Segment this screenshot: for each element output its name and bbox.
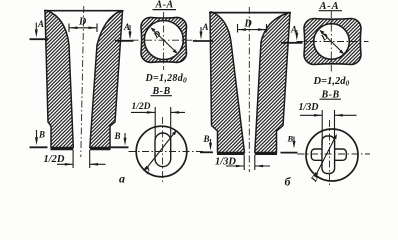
B-B cross slot: horizontal bar <box>311 149 346 160</box>
section mark A (left side of right die): arrow <box>200 27 202 34</box>
B-B diagonal diameter dimension (right) <box>316 136 337 176</box>
A-A horizontal center line (right) <box>297 41 369 43</box>
A-A vertical center line <box>163 12 165 70</box>
svg-text:a: a <box>119 172 125 186</box>
section mark B (right side): tick <box>281 152 298 154</box>
section label A-A underline <box>153 9 177 11</box>
section mark B (right side of right die): arrow <box>293 137 295 143</box>
svg-text:1/2D: 1/2D <box>132 102 151 112</box>
section label B-B underline <box>320 98 342 100</box>
svg-text:B: B <box>114 131 121 141</box>
left die: vertical center line (dash-dot) <box>81 6 84 157</box>
dimension 1/2D: dimension line with inward arrows <box>57 163 106 165</box>
svg-text:б: б <box>285 175 292 189</box>
B-B vertical center line <box>162 117 164 183</box>
dimension D (left die): extension lines <box>69 24 97 33</box>
A-A bore circle (right) <box>314 24 350 60</box>
section mark B (left side of left die): arrow <box>36 130 38 139</box>
section label B-B underline <box>151 95 173 97</box>
svg-text:B: B <box>38 130 45 140</box>
B-B cross slot: vertical bar <box>322 136 335 174</box>
section mark A (right side): tick <box>115 40 134 42</box>
A-A horizontal center line <box>132 39 198 41</box>
A-A bore circle <box>144 21 183 60</box>
svg-text:B: B <box>203 134 210 144</box>
dimension 1/3D (above right B-B): extension lines <box>322 110 334 145</box>
svg-text:1/2D: 1/2D <box>44 154 65 165</box>
section mark A (right side of right die): arrow <box>296 30 298 35</box>
svg-text:D: D <box>78 17 86 28</box>
svg-text:1/3D: 1/3D <box>299 102 319 113</box>
right die: bottom face thick lines <box>217 153 277 155</box>
svg-text:A: A <box>37 19 44 29</box>
svg-text:A: A <box>123 22 130 32</box>
svg-text:A: A <box>290 25 297 35</box>
section mark B (left side): tick <box>200 151 213 153</box>
dimension D (left die): dimension line with outward arrows <box>69 27 97 29</box>
section mark B (left side of right die): arrow <box>210 139 212 145</box>
dimension 1/2D (above B-B): dimension line, inward arrows from outside <box>131 111 185 113</box>
svg-text:A-A: A-A <box>155 0 174 11</box>
B-B outer circle (right) <box>306 129 358 181</box>
section mark A (left side of left die): arrow <box>35 23 37 32</box>
A-A diagonal diameter dimension (right) <box>321 31 344 53</box>
right die: left wall cross-section (hatched) <box>210 12 245 153</box>
dimension 1/2D (above B-B): extension lines <box>155 107 171 140</box>
dimension D (right die): dimension line with outward arrows <box>238 29 267 31</box>
section mark A (left side): tick <box>193 40 213 42</box>
right die: right wall cross-section (hatched) <box>255 13 290 153</box>
A-A square body (hatched, rounded corners) <box>141 17 187 62</box>
B-B vertical center line (right) <box>329 120 331 186</box>
left die: left wall cross-section (hatched) <box>45 11 73 148</box>
section mark A (left side): tick <box>30 38 49 40</box>
A-A diagonal diameter dimension <box>152 29 177 53</box>
section mark B (left side): tick <box>30 146 48 148</box>
left die: bottom face thick lines <box>51 148 111 150</box>
B-B horizontal center line <box>129 151 206 153</box>
B-B horizontal center line (right) <box>298 153 371 155</box>
B-B diagonal diameter dimension <box>146 132 176 170</box>
svg-text:D=1,28d0: D=1,28d0 <box>145 73 188 85</box>
A-A vertical center line (right) <box>330 11 332 72</box>
section mark A (right side of left die): arrow <box>129 25 131 33</box>
left die: top face line <box>44 10 124 12</box>
svg-text:D=1,2d0: D=1,2d0 <box>313 76 350 88</box>
dimension 1/3D (below right die): extension lines <box>244 155 255 170</box>
B-B cross slot: clean intersection <box>323 150 334 159</box>
dimension 1/3D: dimension line with inward arrows <box>226 165 270 167</box>
svg-text:1/3D: 1/3D <box>215 157 236 168</box>
B-B outer circle (left) <box>136 126 187 177</box>
dimension 1/3D (above right B-B): dimension line <box>300 114 357 116</box>
section mark B (right side of left die): arrow <box>124 133 126 140</box>
left die: right wall cross-section (hatched) <box>90 11 123 148</box>
section mark A (right side): tick <box>281 42 302 44</box>
svg-text:D: D <box>244 19 252 30</box>
B-B slot (vertical stadium) <box>155 133 171 167</box>
svg-text:B: B <box>287 134 294 144</box>
A-A square body (right, hatched) <box>304 19 361 65</box>
dimension 1/2D (below left die): extension lines <box>73 150 90 168</box>
section label A-A underline <box>319 10 343 12</box>
section mark B (right side): tick <box>111 146 129 148</box>
right die: top face line <box>209 12 291 14</box>
dimension D (right die): extension lines <box>238 24 267 33</box>
svg-text:A: A <box>202 22 209 32</box>
right die: vertical center line <box>248 7 250 172</box>
